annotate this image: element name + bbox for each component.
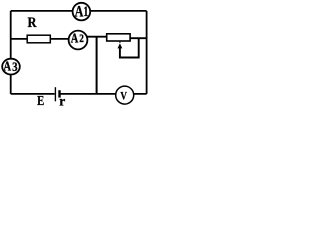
svg-text:3: 3 [12, 59, 17, 74]
svg-text:R: R [28, 14, 37, 30]
svg-text:E: E [37, 92, 44, 107]
svg-text:1: 1 [84, 3, 89, 20]
svg-text:2: 2 [79, 33, 84, 45]
svg-text:V: V [120, 91, 127, 103]
svg-text:A: A [71, 30, 79, 46]
svg-text:r: r [59, 94, 65, 107]
svg-text:A: A [3, 58, 11, 74]
svg-text:A: A [75, 3, 84, 21]
